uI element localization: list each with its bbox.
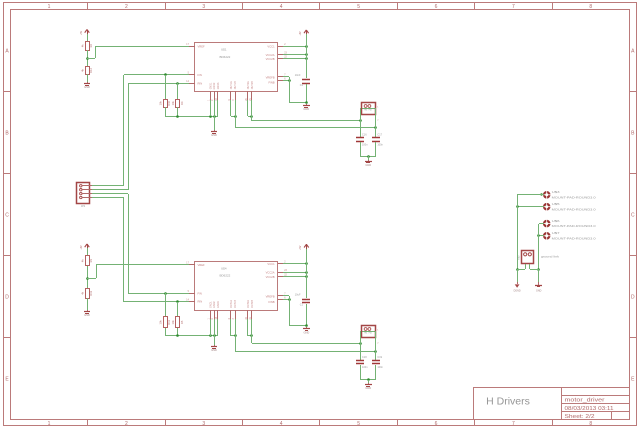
svg-text:GND2: GND2: [213, 301, 216, 308]
svg-text:P$2: P$2: [369, 110, 372, 112]
svg-text:JP2: JP2: [81, 205, 86, 208]
svg-text:100n: 100n: [362, 143, 368, 146]
svg-text:10nF: 10nF: [295, 74, 301, 77]
svg-text:VCC2B: VCC2B: [266, 57, 275, 61]
svg-text:C16: C16: [362, 134, 367, 137]
svg-text:RIN: RIN: [198, 300, 203, 304]
svg-text:FINB: FINB: [268, 81, 274, 85]
svg-text:2: 2: [125, 421, 128, 427]
svg-text:+5V: +5V: [80, 245, 83, 250]
svg-text:ground link: ground link: [541, 254, 560, 258]
svg-text:C19: C19: [377, 356, 382, 359]
svg-text:GND: GND: [536, 289, 542, 292]
svg-text:U$6: U$6: [552, 219, 560, 223]
svg-text:GND: GND: [84, 85, 90, 89]
svg-text:BD6222: BD6222: [220, 55, 231, 59]
svg-text:OUT1A: OUT1A: [230, 300, 233, 308]
svg-text:R10: R10: [167, 100, 171, 105]
svg-text:7: 7: [512, 421, 515, 427]
svg-text:10k: 10k: [159, 320, 163, 325]
svg-text:4: 4: [280, 4, 283, 10]
svg-text:FINB: FINB: [268, 300, 274, 304]
svg-text:C17: C17: [377, 134, 382, 137]
svg-text:100n: 100n: [377, 366, 383, 369]
svg-text:VCC1: VCC1: [267, 45, 275, 49]
svg-text:U$4: U$4: [221, 266, 227, 270]
svg-text:FIN: FIN: [198, 291, 202, 295]
svg-text:8: 8: [589, 421, 592, 427]
svg-text:C: C: [5, 212, 9, 218]
svg-text:U$3: U$3: [552, 190, 560, 194]
svg-text:P$1: P$1: [364, 333, 367, 335]
svg-text:6: 6: [435, 421, 438, 427]
svg-text:7: 7: [512, 4, 515, 10]
svg-text:MOUNT-PAD-ROUND3.0: MOUNT-PAD-ROUND3.0: [552, 236, 596, 240]
svg-text:6: 6: [435, 4, 438, 10]
svg-text:U$5: U$5: [552, 202, 560, 206]
svg-text:R4: R4: [180, 101, 184, 105]
svg-text:+5V: +5V: [299, 31, 302, 36]
svg-text:100n: 100n: [377, 143, 383, 146]
svg-text:10k: 10k: [171, 320, 175, 325]
svg-text:VCC2A: VCC2A: [266, 271, 275, 275]
svg-text:R2: R2: [89, 44, 93, 48]
svg-text:GND2: GND2: [213, 82, 216, 89]
svg-text:GND: GND: [365, 386, 371, 390]
svg-text:VREF: VREF: [198, 45, 206, 49]
svg-text:OUT1B: OUT1B: [234, 300, 237, 308]
svg-text:VCC2A: VCC2A: [266, 53, 275, 57]
svg-text:08/03/2013 03:11: 08/03/2013 03:11: [565, 406, 614, 412]
svg-text:3: 3: [202, 4, 205, 10]
svg-text:R3: R3: [89, 258, 93, 262]
svg-text:1: 1: [48, 421, 51, 427]
svg-text:DGND: DGND: [514, 289, 521, 292]
svg-text:GND1: GND1: [210, 301, 213, 308]
svg-text:D: D: [5, 294, 9, 300]
svg-text:P$2: P$2: [369, 333, 372, 335]
svg-text:FIN: FIN: [198, 73, 202, 77]
svg-text:1: 1: [48, 4, 51, 10]
svg-text:3: 3: [202, 421, 205, 427]
svg-text:VREFB: VREFB: [266, 76, 275, 80]
svg-text:R13: R13: [89, 290, 93, 295]
svg-text:OUT1B: OUT1B: [234, 81, 237, 89]
svg-text:VREF: VREF: [198, 263, 206, 267]
svg-text:8: 8: [589, 4, 592, 10]
svg-text:OUT2B: OUT2B: [251, 300, 254, 308]
svg-text:GND: GND: [211, 348, 217, 352]
svg-text:VCC2B: VCC2B: [266, 275, 275, 279]
svg-text:H Drivers: H Drivers: [486, 396, 530, 408]
svg-text:4: 4: [280, 421, 283, 427]
svg-text:R12: R12: [89, 68, 93, 73]
svg-text:P$1: P$1: [364, 110, 367, 112]
svg-text:GND3: GND3: [217, 301, 220, 308]
svg-text:10k: 10k: [159, 100, 163, 105]
svg-text:Sheet: 2/2: Sheet: 2/2: [565, 414, 595, 420]
svg-text:GND: GND: [365, 163, 371, 167]
svg-text:C18: C18: [362, 356, 367, 359]
svg-text:GND: GND: [211, 133, 217, 137]
svg-text:OUT1A: OUT1A: [230, 81, 233, 89]
svg-text:motor_driver: motor_driver: [565, 398, 605, 404]
svg-text:GND: GND: [84, 313, 90, 317]
svg-text:C: C: [631, 212, 635, 218]
svg-text:VREFB: VREFB: [266, 295, 275, 299]
svg-text:2: 2: [125, 4, 128, 10]
svg-text:+5V: +5V: [299, 245, 302, 250]
svg-text:OUT2B: OUT2B: [251, 81, 254, 89]
svg-text:U$1: U$1: [221, 48, 227, 52]
svg-text:OUT2A: OUT2A: [247, 300, 250, 308]
svg-text:MOUNT-PAD-ROUND3.0: MOUNT-PAD-ROUND3.0: [552, 224, 596, 228]
svg-text:OUT2A: OUT2A: [247, 81, 250, 89]
svg-text:RIN: RIN: [198, 81, 203, 85]
svg-text:GND1: GND1: [210, 82, 213, 89]
svg-text:10k: 10k: [171, 100, 175, 105]
svg-text:GND: GND: [303, 107, 309, 111]
svg-text:5: 5: [357, 421, 360, 427]
svg-text:100n: 100n: [362, 366, 368, 369]
svg-text:GND: GND: [304, 330, 310, 334]
svg-text:MOUNT-PAD-ROUND3.0: MOUNT-PAD-ROUND3.0: [552, 195, 596, 199]
svg-text:BD6222: BD6222: [220, 274, 231, 278]
svg-text:R11: R11: [167, 320, 171, 325]
svg-text:5: 5: [357, 4, 360, 10]
svg-text:MOUNT-PAD-ROUND3.0: MOUNT-PAD-ROUND3.0: [552, 207, 596, 211]
svg-text:+5V: +5V: [80, 30, 83, 35]
svg-text:10uF: 10uF: [295, 293, 301, 296]
svg-text:R5: R5: [180, 320, 184, 324]
svg-text:D: D: [631, 294, 635, 300]
svg-text:GND3: GND3: [217, 82, 220, 89]
svg-text:U$7: U$7: [552, 231, 560, 235]
svg-text:VCC1: VCC1: [267, 262, 275, 266]
